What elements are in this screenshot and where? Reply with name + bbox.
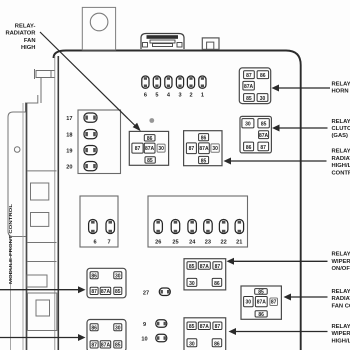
svg-text:24: 24 bbox=[189, 240, 196, 246]
svg-text:85: 85 bbox=[201, 158, 207, 164]
svg-text:87A: 87A bbox=[200, 324, 210, 330]
svg-text:87A: 87A bbox=[145, 146, 155, 152]
pin 87 bbox=[90, 341, 98, 348]
svg-text:86: 86 bbox=[201, 135, 207, 141]
svg-text:87: 87 bbox=[246, 73, 252, 79]
svg-text:FAN: FAN bbox=[24, 38, 36, 44]
svg-text:3: 3 bbox=[178, 93, 181, 99]
svg-text:27: 27 bbox=[143, 290, 149, 296]
pin 85 bbox=[187, 262, 196, 270]
circle hole bbox=[90, 13, 108, 31]
module outer step outline bbox=[26, 95, 38, 112]
fuse 9 bbox=[156, 320, 167, 328]
svg-text:86: 86 bbox=[258, 312, 264, 318]
svg-text:FAN CONTROL: FAN CONTROL bbox=[332, 303, 350, 309]
svg-text:10: 10 bbox=[141, 337, 147, 343]
svg-text:WIPER: WIPER bbox=[332, 259, 350, 265]
svg-text:23: 23 bbox=[205, 240, 211, 246]
pin 86 bbox=[212, 339, 222, 347]
connector top center bbox=[141, 34, 184, 50]
svg-text:4: 4 bbox=[167, 93, 171, 99]
wire arrow to wiper high/low relay bbox=[231, 331, 328, 333]
module wall line light bbox=[22, 103, 24, 350]
callout label relay wiper on/off bbox=[332, 252, 350, 272]
numbers 17-20 bbox=[66, 116, 72, 171]
svg-text:WIPER: WIPER bbox=[332, 331, 350, 337]
fuse block 17-20 bbox=[78, 110, 121, 174]
svg-text:RADIATOR: RADIATOR bbox=[5, 31, 36, 37]
svg-text:(GAS): (GAS) bbox=[332, 133, 348, 139]
pin 87A bbox=[198, 322, 210, 330]
fuse 27 bbox=[159, 288, 170, 296]
fuse 25 bbox=[171, 220, 180, 234]
module rib rung 2 bbox=[27, 242, 57, 244]
pin 86 bbox=[90, 272, 98, 279]
svg-text:87A: 87A bbox=[259, 133, 269, 139]
pin 30 bbox=[211, 144, 219, 152]
callout label relay radiator fan high bbox=[5, 24, 36, 52]
svg-text:22: 22 bbox=[220, 240, 226, 246]
fuse 23 bbox=[204, 220, 213, 234]
svg-text:87A: 87A bbox=[199, 146, 209, 152]
svg-text:RELAY-: RELAY- bbox=[332, 289, 350, 295]
fuse block 6-7 bbox=[80, 196, 118, 247]
svg-text:85: 85 bbox=[189, 324, 195, 330]
svg-text:85: 85 bbox=[261, 122, 267, 128]
svg-text:85: 85 bbox=[246, 96, 252, 102]
pin 87A bbox=[243, 81, 254, 90]
pin 86 bbox=[212, 278, 222, 286]
svg-text:86: 86 bbox=[91, 274, 97, 280]
svg-text:1: 1 bbox=[201, 93, 204, 99]
svg-text:17: 17 bbox=[66, 116, 72, 122]
pin 87 bbox=[213, 322, 222, 330]
svg-text:RADIATOR: RADIATOR bbox=[332, 296, 350, 302]
pin 85 bbox=[244, 94, 255, 102]
svg-text:86: 86 bbox=[147, 136, 153, 142]
svg-text:85: 85 bbox=[147, 158, 153, 164]
fuse 6b bbox=[89, 220, 98, 234]
callout label relay a/c clutch bbox=[332, 119, 350, 139]
module mounting tab bbox=[8, 112, 26, 237]
pin 30 bbox=[187, 339, 197, 347]
svg-text:ON/OFF: ON/OFF bbox=[332, 266, 350, 272]
svg-text:30: 30 bbox=[189, 281, 195, 287]
fuse 20 bbox=[84, 162, 97, 171]
left bracket flange bbox=[35, 69, 55, 103]
relay U6 left B bbox=[87, 320, 126, 350]
module rib rect 4 bbox=[36, 300, 50, 316]
fuse 19 bbox=[84, 146, 97, 155]
svg-text:86: 86 bbox=[260, 73, 266, 79]
pin 87A bbox=[198, 262, 210, 270]
fuse 4 bbox=[165, 76, 172, 88]
pin 87A bbox=[100, 287, 111, 294]
wire arrow from left to relay B bbox=[0, 337, 82, 339]
svg-text:HIGH: HIGH bbox=[21, 45, 36, 51]
pin 85 bbox=[114, 341, 122, 348]
small square fitting bbox=[202, 38, 219, 50]
svg-text:85: 85 bbox=[115, 289, 121, 295]
svg-text:CONTROL: CONTROL bbox=[332, 170, 350, 176]
pin 85 bbox=[145, 157, 155, 163]
wire arrow to wiper on/off relay bbox=[229, 260, 328, 262]
fuse 21 bbox=[235, 220, 244, 234]
svg-text:87: 87 bbox=[215, 264, 221, 270]
module left wall lower bbox=[10, 237, 12, 350]
module rib rect 3 bbox=[27, 275, 47, 287]
svg-text:RELAY-: RELAY- bbox=[332, 81, 350, 87]
module rib rung 3 bbox=[27, 261, 57, 263]
pin 87 bbox=[270, 298, 278, 306]
svg-text:30: 30 bbox=[189, 341, 195, 347]
pin 85 bbox=[199, 156, 209, 163]
pin 85 bbox=[187, 322, 196, 330]
svg-text:HIGH/LOW: HIGH/LOW bbox=[332, 338, 350, 344]
svg-text:86: 86 bbox=[91, 326, 97, 332]
svg-text:85: 85 bbox=[115, 343, 121, 349]
svg-text:30: 30 bbox=[115, 326, 121, 332]
svg-text:CLUTCH: CLUTCH bbox=[332, 126, 350, 132]
fuse 24 bbox=[188, 220, 197, 234]
module cavity box bbox=[28, 293, 57, 331]
pin 87 bbox=[90, 287, 98, 294]
pin 87 bbox=[213, 262, 222, 270]
svg-text:21: 21 bbox=[236, 240, 242, 246]
pin 87A bbox=[259, 131, 269, 139]
svg-text:87: 87 bbox=[189, 146, 195, 152]
svg-text:26: 26 bbox=[155, 240, 161, 246]
module rib rect 2 bbox=[31, 213, 49, 227]
pin 30 bbox=[244, 297, 254, 307]
svg-text:87A: 87A bbox=[257, 300, 267, 306]
callout label relay radiator fan high/low control bbox=[332, 149, 350, 177]
svg-text:87A: 87A bbox=[101, 289, 111, 295]
svg-text:RELAY-: RELAY- bbox=[332, 252, 350, 258]
relay U5 left A bbox=[87, 268, 126, 298]
wire leader arrow to fan high relay bbox=[40, 32, 137, 127]
enclosure top and right outline bbox=[54, 51, 301, 350]
svg-text:86: 86 bbox=[246, 145, 252, 151]
fuse numbers 6-1 bbox=[144, 93, 204, 99]
svg-text:87A: 87A bbox=[244, 84, 254, 90]
relay U3 horn bbox=[239, 68, 270, 104]
svg-text:HORN: HORN bbox=[332, 89, 349, 95]
mounting dot bbox=[149, 118, 154, 123]
fuse 5 bbox=[153, 76, 160, 88]
svg-text:85: 85 bbox=[258, 290, 264, 296]
connector housing with circle bbox=[82, 7, 115, 50]
pin 30 bbox=[242, 119, 254, 128]
svg-text:87: 87 bbox=[215, 324, 221, 330]
module wall line dark bbox=[26, 103, 28, 350]
svg-text:RELAY-: RELAY- bbox=[15, 24, 36, 30]
pin 87 bbox=[258, 142, 269, 151]
svg-text:MODULE-FRONT CONTROL: MODULE-FRONT CONTROL bbox=[8, 204, 14, 284]
module rib rect 1 bbox=[31, 183, 49, 200]
relay U2 radiator fan high/low control bbox=[184, 131, 222, 166]
pin 85 bbox=[258, 119, 269, 128]
callout label relay horn bbox=[332, 81, 350, 94]
pin 30 bbox=[114, 272, 122, 279]
svg-text:RADIATOR: RADIATOR bbox=[332, 156, 350, 162]
pin 87A bbox=[100, 341, 111, 348]
svg-text:7: 7 bbox=[107, 240, 110, 246]
module rib rung 1 bbox=[27, 170, 57, 172]
wire arrow from left to relay A bbox=[0, 289, 82, 291]
callout label relay radiator fan control bbox=[332, 289, 350, 309]
svg-text:9: 9 bbox=[143, 322, 146, 328]
svg-text:87: 87 bbox=[91, 289, 97, 295]
fuse 1 bbox=[199, 76, 206, 88]
svg-text:HIGH/LOW: HIGH/LOW bbox=[332, 163, 350, 169]
pin 87A bbox=[199, 143, 210, 154]
svg-text:87: 87 bbox=[260, 145, 266, 151]
fuse 18 bbox=[84, 130, 97, 139]
fuse 7b bbox=[106, 220, 115, 234]
pin 87 bbox=[186, 143, 196, 154]
fuse 26 bbox=[154, 220, 163, 234]
svg-text:6: 6 bbox=[144, 93, 147, 99]
svg-text:30: 30 bbox=[245, 122, 251, 128]
svg-text:RELAY-: RELAY- bbox=[332, 119, 350, 125]
svg-text:25: 25 bbox=[172, 240, 178, 246]
fuse block 21-26 bbox=[148, 196, 248, 247]
callout label relay wiper high/low bbox=[332, 324, 350, 344]
svg-text:2: 2 bbox=[189, 93, 192, 99]
svg-text:RELAY-: RELAY- bbox=[332, 149, 350, 155]
relay U9 wiper high/low bbox=[184, 318, 226, 350]
svg-text:86: 86 bbox=[214, 281, 220, 287]
wire left edge dark bbox=[57, 56, 59, 350]
pin 86 bbox=[144, 135, 155, 141]
pin 86 bbox=[244, 142, 254, 151]
pin 86 bbox=[90, 324, 98, 331]
pin 86 bbox=[255, 311, 267, 317]
svg-text:19: 19 bbox=[66, 148, 72, 154]
pin 87A bbox=[255, 297, 267, 307]
pin 30 bbox=[157, 144, 165, 152]
svg-text:30: 30 bbox=[246, 300, 252, 306]
fuse 3 bbox=[176, 76, 183, 88]
fuse row 1-6 bbox=[142, 76, 206, 88]
svg-text:87: 87 bbox=[91, 343, 97, 349]
relay U7 wiper on/off bbox=[184, 259, 226, 290]
fuse 10 bbox=[156, 334, 167, 342]
relay U4 a/c clutch bbox=[240, 116, 271, 152]
svg-text:87A: 87A bbox=[101, 343, 111, 349]
svg-text:20: 20 bbox=[66, 164, 72, 170]
pin 30 bbox=[114, 324, 122, 331]
pin 87 bbox=[132, 143, 143, 153]
pin 85 bbox=[255, 289, 268, 295]
pin 86 bbox=[199, 134, 209, 141]
pin 85 bbox=[114, 287, 122, 294]
fuse 2 bbox=[187, 76, 194, 88]
svg-text:86: 86 bbox=[214, 341, 220, 347]
svg-text:87A: 87A bbox=[200, 264, 210, 270]
svg-text:30: 30 bbox=[115, 274, 121, 280]
pin 30 bbox=[257, 94, 268, 102]
pin 30 bbox=[187, 278, 197, 286]
svg-text:87: 87 bbox=[271, 300, 277, 306]
svg-text:RELAY-: RELAY- bbox=[332, 324, 350, 330]
fuse 22 bbox=[219, 220, 228, 234]
tab hole bbox=[14, 147, 20, 153]
svg-text:5: 5 bbox=[155, 93, 158, 99]
wire arrow to clutch relay bbox=[275, 127, 328, 129]
svg-text:30: 30 bbox=[158, 146, 164, 152]
svg-text:18: 18 bbox=[66, 132, 72, 138]
svg-text:85: 85 bbox=[189, 264, 195, 270]
svg-text:6: 6 bbox=[93, 240, 96, 246]
wire left edge light bbox=[54, 56, 56, 350]
svg-text:30: 30 bbox=[260, 96, 266, 102]
wire arrow to fan high/low relay bbox=[226, 160, 327, 162]
pin 87A bbox=[144, 143, 155, 153]
pin 87 bbox=[244, 71, 255, 79]
wire arrow to fan control relay bbox=[286, 296, 328, 298]
wire arrow to horn relay bbox=[274, 87, 330, 89]
fuse 17 bbox=[84, 113, 97, 122]
fuse 6 bbox=[142, 76, 149, 88]
relay U1 radiator fan high bbox=[129, 131, 168, 165]
svg-text:87: 87 bbox=[135, 146, 141, 152]
pin 86 bbox=[257, 71, 269, 79]
relay U8 radiator fan control bbox=[241, 286, 281, 319]
svg-text:30: 30 bbox=[212, 146, 218, 152]
